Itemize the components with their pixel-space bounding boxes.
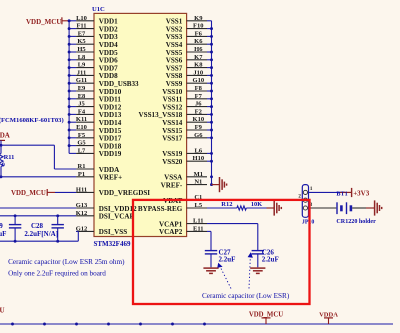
resistor R12 10K [221, 201, 262, 210]
wire VCAP1 (L11) to C26 [207, 224, 258, 251]
pin VDD1 (L10) wire + label [68, 15, 119, 26]
svg-text:DSI_VCAP: DSI_VCAP [99, 213, 135, 221]
svg-text:10K: 10K [251, 201, 262, 208]
svg-text:F7: F7 [195, 93, 203, 100]
svg-text:VDD17: VDD17 [99, 135, 122, 143]
pin VDD8 (J11) wire + label [68, 69, 119, 80]
pin VSS3 (F6) wire + label [166, 30, 213, 41]
svg-text:VDD3: VDD3 [99, 33, 118, 41]
svg-text:VSS15: VSS15 [162, 127, 183, 135]
ground under C26 [250, 268, 265, 273]
wire DA port down to R11 [0, 140, 2, 153]
svg-text:VSS8: VSS8 [166, 72, 183, 80]
junction C28 top [56, 214, 59, 217]
svg-text:K5: K5 [77, 38, 86, 45]
svg-text:VSS10: VSS10 [162, 88, 183, 96]
pin VSS7 (K8) wire + label [166, 62, 213, 73]
svg-text:VDD5: VDD5 [99, 49, 118, 57]
pin VSS19 (L6) wire + label [162, 147, 213, 158]
pin VSS4 (K6) wire + label [166, 38, 213, 49]
svg-text:VSS11: VSS11 [163, 96, 183, 104]
svg-text:VDD8: VDD8 [99, 72, 118, 80]
svg-text:L8: L8 [78, 54, 86, 61]
svg-text:VREF-: VREF- [161, 181, 183, 189]
svg-text:VDD12: VDD12 [99, 103, 122, 111]
power port +3V3 [352, 188, 370, 197]
wire BT1 to ground [352, 207, 374, 209]
junction N1 on VSS bus [210, 183, 213, 186]
junction C29 top [14, 214, 17, 217]
connector JP10 (3-pin jumper) [298, 185, 314, 226]
pin VSS6 (K7) wire + label [166, 54, 213, 65]
ground (earth) after R12 [274, 200, 281, 215]
note: ceramic capacitor text [8, 258, 125, 278]
svg-text:L6: L6 [195, 147, 203, 154]
pin VBAT (C1) stub + label [163, 194, 207, 205]
pin VSS8 (J10) wire + label [166, 69, 213, 80]
svg-text:VSSA: VSSA [164, 174, 183, 182]
capacitor C28 2.2uF[N/A] [24, 216, 64, 241]
svg-text:K10: K10 [193, 116, 205, 123]
ground (earth) at VSS bus bottom [212, 177, 227, 192]
svg-text:R1: R1 [78, 163, 86, 170]
svg-text:G13: G13 [76, 202, 88, 209]
svg-text:U1C: U1C [92, 6, 105, 13]
ground under C27 [203, 268, 218, 273]
junction C29 bottom [14, 240, 17, 243]
wire VDDA branch to pin R1 [1, 145, 76, 169]
svg-text:E7: E7 [78, 30, 86, 37]
svg-text:VDD7: VDD7 [99, 64, 118, 72]
svg-text:E8: E8 [78, 93, 86, 100]
svg-text:VDD11: VDD11 [99, 96, 122, 104]
svg-text:K12: K12 [76, 210, 88, 217]
svg-text:VSS5: VSS5 [166, 49, 183, 57]
svg-text:2.2uF: 2.2uF [262, 256, 279, 264]
pin VSS11 (F7) wire + label [163, 93, 213, 104]
svg-text:R11: R11 [4, 154, 15, 161]
net label (VD)DA cut at left edge [0, 132, 10, 141]
pin VSS17 (G6) wire + label [162, 132, 213, 143]
svg-text:VDD18: VDD18 [99, 142, 122, 150]
svg-text:VSS3: VSS3 [166, 33, 183, 41]
pin VCAP1 (L11) stub + label [159, 218, 207, 229]
pin VSS10 (F8) wire + label [162, 85, 213, 96]
svg-text:F2: F2 [195, 108, 202, 115]
wire JP10 pin3 to BT1 [309, 207, 337, 209]
svg-text:BYPASS-REG: BYPASS-REG [138, 205, 183, 213]
junction C28 bottom [56, 240, 59, 243]
pin VDD7 (L9) wire + label [68, 62, 119, 73]
svg-text:P1: P1 [78, 171, 85, 178]
pin VDD19 (L7) wire + label [69, 147, 122, 158]
designator U1C [92, 6, 105, 13]
svg-text:+3V3: +3V3 [353, 189, 370, 197]
svg-text:E10: E10 [76, 124, 87, 131]
svg-text:H10: H10 [193, 155, 205, 162]
svg-text:F6: F6 [195, 30, 203, 37]
net label fragment (cut, bottom left) [0, 307, 5, 315]
pin DSI_VDD12 (G13) stub + label [76, 202, 137, 213]
wire: VDD_MCU vertical bus (left) [68, 21, 70, 154]
svg-text:2.2uF[N/A]: 2.2uF[N/A] [24, 230, 58, 238]
svg-text:G10: G10 [193, 77, 205, 84]
pin VDD11 (E8) wire + label [68, 93, 122, 104]
pin VSS13_VSS18 (F2) wire + label [139, 108, 213, 119]
pin VDDA (R1) stub + label [76, 163, 120, 174]
value label STM32F469 [94, 240, 131, 248]
svg-text:K8: K8 [194, 62, 203, 69]
svg-text:VSS20: VSS20 [162, 158, 183, 166]
pin VDD10 (E9) wire + label [68, 85, 122, 96]
svg-text:L5: L5 [195, 202, 203, 209]
svg-text:VDD4: VDD4 [99, 41, 118, 49]
svg-text:VDD19: VDD19 [99, 150, 122, 158]
svg-text:VSS14: VSS14 [162, 119, 183, 127]
wire VCAP2 (E11) to C27 [207, 231, 211, 250]
svg-text:L7: L7 [78, 147, 86, 154]
svg-text:VSS17: VSS17 [162, 135, 183, 143]
svg-text:G6: G6 [194, 132, 203, 139]
pin VDD15 (E10) wire + label [68, 124, 122, 135]
svg-text:VSS2: VSS2 [166, 25, 183, 33]
pin VDD4 (K5) wire + label [68, 38, 119, 49]
pin VREF+ (P1) stub + label [76, 171, 122, 182]
svg-text:VDD_USB33: VDD_USB33 [99, 80, 139, 88]
pin VDD12 (J5) wire + label [68, 101, 122, 112]
power port VDD_MCU (top left) [26, 17, 71, 26]
svg-text:H6: H6 [194, 46, 203, 53]
wire R11 to VREF+ [0, 167, 2, 177]
svg-text:Ceramic capacitor (Low ESR 25m: Ceramic capacitor (Low ESR 25m ohm) [8, 258, 125, 266]
power port VDDA (bottom) [319, 312, 338, 324]
wire JP10 pin1 to +3V3 [309, 191, 352, 193]
svg-text:VDD15: VDD15 [99, 127, 122, 135]
pin VSS12 (J6) wire + label [162, 101, 213, 112]
pin DSI_VCAP (K12) stub + label [76, 210, 135, 221]
pin VSS15 (F9) wire + label [162, 124, 213, 135]
svg-text:VDD_MCU: VDD_MCU [11, 190, 46, 197]
IC U1C body (STM32F469 power pins block) [94, 13, 187, 236]
svg-text:Only one 2.2uF required on boa: Only one 2.2uF required on board [8, 270, 106, 278]
wire DSI_VCAP net to pin K12 [0, 215, 76, 217]
svg-text:J6: J6 [195, 101, 202, 108]
pin VDD5 (H5) wire + label [68, 46, 119, 57]
svg-text:K7: K7 [194, 54, 203, 61]
svg-text:F4: F4 [78, 108, 86, 115]
ground (earth) right of BT1 [375, 200, 382, 215]
svg-text:VDD6: VDD6 [99, 57, 118, 65]
svg-text:H11: H11 [76, 186, 87, 193]
svg-text:STM32F469: STM32F469 [94, 240, 131, 248]
svg-text:2.2uF: 2.2uF [219, 256, 236, 264]
pin VSS14 (K10) wire + label [162, 116, 213, 127]
svg-text:(FCM1608KF-601T03): (FCM1608KF-601T03) [0, 117, 64, 124]
wire DSI_VSS bottom rail [0, 231, 78, 241]
svg-text:VDD_VREGDSI: VDD_VREGDSI [99, 189, 150, 197]
svg-text:VDD14: VDD14 [99, 119, 122, 127]
resistor R11 (0 ohm) [0, 154, 14, 169]
wire bottom VDD rail [0, 323, 393, 326]
svg-text:H5: H5 [77, 46, 86, 53]
svg-text:VSS4: VSS4 [166, 41, 183, 49]
svg-text:VDD10: VDD10 [99, 88, 122, 96]
pin VDD14 (K11) wire + label [68, 116, 122, 127]
svg-text:VDD1: VDD1 [99, 18, 118, 26]
wire BYPASS-REG to R12 [207, 207, 237, 209]
wire VDD_MCU to pin H11 [55, 191, 76, 193]
pin VDD13 (F4) wire + label [68, 108, 122, 119]
svg-text:VSS13_VSS18: VSS13_VSS18 [139, 111, 183, 119]
pin VDD17 (F5) wire + label [68, 132, 122, 143]
svg-text:VDD13: VDD13 [99, 111, 122, 119]
svg-text:VSS7: VSS7 [166, 64, 183, 72]
svg-text:VSS12: VSS12 [162, 103, 183, 111]
pin VDD2 (F11) wire + label [68, 23, 119, 34]
svg-text:VSS6: VSS6 [166, 57, 183, 65]
svg-text:E9: E9 [78, 85, 86, 92]
svg-text:VDDA: VDDA [99, 166, 120, 174]
svg-text:DA: DA [0, 132, 10, 140]
svg-text:JP10: JP10 [302, 219, 314, 225]
junction M1 on VSS bus [210, 175, 213, 178]
svg-text:VSS19: VSS19 [162, 150, 183, 158]
svg-text:0: 0 [2, 162, 5, 169]
wire DSI_VDD12 net to pin G13 [0, 207, 76, 209]
svg-text:R12: R12 [221, 201, 232, 208]
svg-text:K11: K11 [76, 116, 87, 123]
svg-text:BT1: BT1 [336, 190, 347, 197]
svg-text:G11: G11 [76, 77, 87, 84]
svg-text:G5: G5 [77, 140, 86, 147]
svg-text:F5: F5 [78, 132, 86, 139]
part number note (FCM1608KF-601T03) [0, 117, 64, 124]
junction VREF+ [0, 175, 2, 178]
svg-text:DSI_VSS: DSI_VSS [99, 228, 127, 236]
power port VDD_MCU (middle left) [11, 189, 55, 197]
pin VCAP2 (E11) stub + label [159, 225, 207, 236]
wire VREF+ to pin P1 [0, 176, 76, 178]
pin BYPASS-REG (L5) stub + label [138, 202, 207, 213]
svg-text:VDD_MCU: VDD_MCU [26, 18, 61, 26]
svg-text:C28: C28 [31, 222, 44, 230]
pin VDD6 (L8) wire + label [68, 54, 119, 65]
pin VSSA (M1) stub + label [164, 171, 207, 182]
wire: VSS vertical bus (right) [211, 21, 213, 185]
wire R12 to ground [246, 207, 273, 209]
junction VDDA branch [0, 144, 2, 147]
pin VSS20 (H10) wire + label [162, 155, 213, 166]
svg-text:J5: J5 [78, 101, 85, 108]
svg-text:L11: L11 [193, 218, 203, 225]
pin VREF- (N1) stub + label [161, 179, 207, 190]
svg-text:J10: J10 [193, 69, 203, 76]
svg-text:VDD2: VDD2 [99, 25, 118, 33]
svg-text:VSS9: VSS9 [166, 80, 183, 88]
pin VDD3 (E7) wire + label [68, 30, 119, 41]
svg-text:K6: K6 [194, 38, 203, 45]
pin VSS2 (F10) wire + label [166, 23, 213, 34]
svg-text:VCAP1: VCAP1 [159, 220, 183, 228]
note: Ceramic capacitor (Low ESR) with arrows [202, 252, 290, 300]
red highlight box [133, 200, 310, 304]
pin VSS1 (K9) wire + label [166, 15, 212, 26]
power port VDD_MCU (bottom) [249, 312, 283, 324]
svg-text:F9: F9 [195, 124, 203, 131]
pin VSS9 (G10) wire + label [166, 77, 213, 88]
svg-text:VCAP2: VCAP2 [159, 228, 183, 236]
pin VDD_VREGDSI (H11) stub + label [76, 186, 150, 197]
svg-text:J11: J11 [77, 69, 86, 76]
svg-text:F10: F10 [193, 23, 203, 30]
svg-text:L10: L10 [76, 15, 87, 22]
svg-text:F11: F11 [76, 23, 86, 30]
svg-text:M1: M1 [194, 171, 203, 178]
wire VBAT pin C1 to JP10 pin2 [187, 199, 303, 201]
svg-text:N1: N1 [194, 179, 202, 186]
pin DSI_VSS (G12) stub + label [76, 225, 128, 236]
pin VDD18 (G5) wire + label [68, 140, 122, 151]
svg-text:VREF+: VREF+ [99, 174, 122, 182]
svg-text:2.2uF: 2.2uF [0, 230, 6, 238]
svg-text:L9: L9 [78, 62, 86, 69]
capacitor C29 2.2uF (labels cut at edge) [0, 216, 21, 241]
svg-text:K9: K9 [194, 15, 203, 22]
pin VDD_USB33 (G11) wire + label [68, 77, 139, 88]
svg-text:U: U [0, 307, 5, 315]
capacitor C26 2.2uF [252, 249, 279, 268]
svg-text:CR1220 holder: CR1220 holder [336, 219, 376, 225]
svg-text:VSS1: VSS1 [166, 18, 183, 26]
svg-text:E11: E11 [193, 225, 203, 232]
svg-text:1: 1 [310, 187, 313, 192]
capacitor C27 2.2uF [205, 249, 236, 268]
battery BT1 CR1220 holder [336, 190, 376, 224]
pin VSS5 (H6) wire + label [166, 46, 213, 57]
svg-text:Ceramic capacitor (Low ESR): Ceramic capacitor (Low ESR) [202, 292, 290, 300]
svg-text:C29: C29 [0, 222, 3, 230]
svg-text:F8: F8 [195, 85, 203, 92]
svg-text:DSI_VDD12: DSI_VDD12 [99, 205, 137, 213]
